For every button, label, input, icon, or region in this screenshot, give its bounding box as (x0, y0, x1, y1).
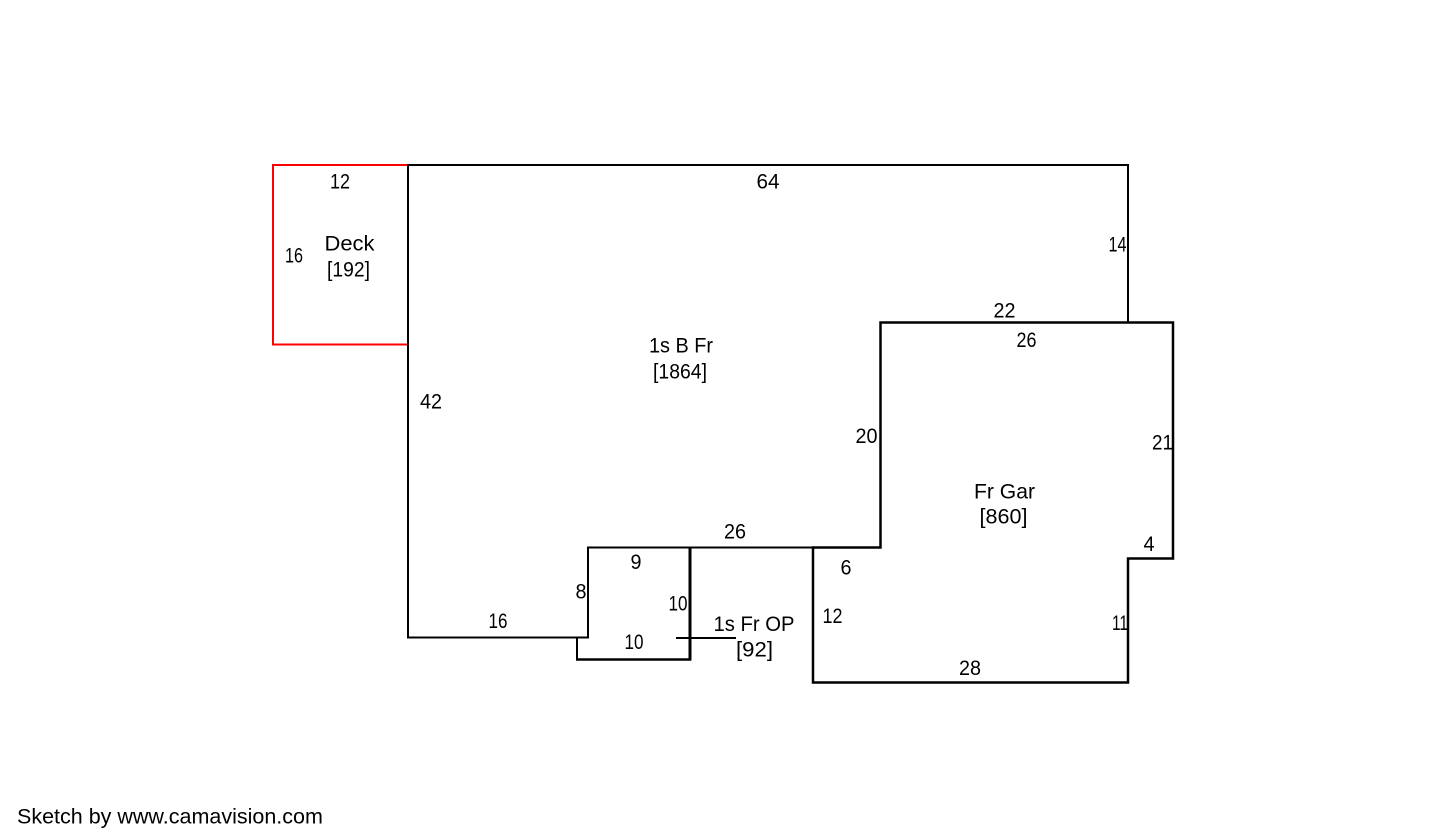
open porch bottom wall (576, 658, 691, 661)
svg-text:11: 11 (1112, 611, 1128, 635)
svg-text:20: 20 (856, 424, 878, 448)
svg-text:8: 8 (576, 580, 587, 604)
deck outline (red) (273, 165, 408, 345)
svg-text:[860]: [860] (980, 505, 1028, 529)
svg-text:22: 22 (994, 299, 1016, 323)
svg-text:4: 4 (1144, 532, 1155, 556)
leader line to 1s Fr OP label (676, 637, 736, 639)
svg-text:6: 6 (841, 556, 852, 580)
svg-text:14: 14 (1109, 233, 1127, 257)
svg-text:[92]: [92] (736, 638, 773, 662)
svg-text:12: 12 (330, 170, 350, 194)
svg-text:26: 26 (1017, 328, 1037, 352)
svg-text:10: 10 (625, 630, 644, 654)
svg-text:Sketch by www.camavision.com: Sketch by www.camavision.com (17, 805, 323, 829)
svg-text:10: 10 (669, 592, 688, 616)
svg-text:26: 26 (724, 520, 746, 544)
svg-text:9: 9 (631, 550, 642, 574)
open porch 1s Fr OP outline (top + left notch) (577, 548, 690, 660)
svg-text:64: 64 (757, 170, 780, 194)
svg-text:16: 16 (489, 609, 508, 633)
svg-text:Fr Gar: Fr Gar (974, 480, 1035, 504)
svg-text:Deck: Deck (325, 232, 375, 256)
svg-text:12: 12 (823, 604, 843, 628)
svg-text:[192]: [192] (327, 258, 370, 282)
svg-text:21: 21 (1152, 431, 1173, 455)
svg-text:28: 28 (959, 656, 981, 680)
garage Fr Gar outline (813, 323, 1173, 683)
main building 1s B Fr outline (408, 165, 1128, 638)
svg-text:1s B Fr: 1s B Fr (649, 334, 713, 358)
svg-text:42: 42 (420, 390, 442, 414)
open porch right wall (thick) (689, 547, 692, 661)
svg-text:[1864]: [1864] (653, 360, 707, 384)
svg-text:16: 16 (285, 244, 303, 268)
svg-text:1s Fr OP: 1s Fr OP (714, 612, 795, 636)
